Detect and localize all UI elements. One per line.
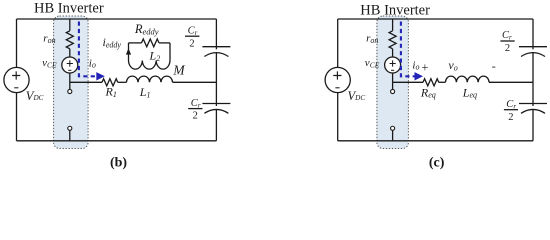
resistor r_on (b): [66, 31, 73, 49]
capacitor Cr/2 top curved plate (c): [521, 53, 545, 57]
wire capacitor leg top (c): [532, 19, 534, 49]
svg-text:M: M: [172, 63, 185, 78]
inductor L1 (b): [127, 76, 173, 82]
svg-text:HB Inverter: HB Inverter: [34, 1, 104, 17]
resistor r_on (c): [389, 31, 396, 49]
wire bottom rail (b): [17, 140, 217, 142]
switch contact lower (b): [68, 126, 72, 130]
svg-text:HB Inverter: HB Inverter: [360, 2, 430, 18]
wire node to contact (c): [392, 82, 394, 89]
wire between capacitors (b): [215, 53, 217, 106]
svg-text:(c): (c): [429, 155, 445, 170]
capacitor Cr/2 bottom plate (b): [202, 103, 230, 105]
capacitor Cr/2 top plate (b): [202, 46, 230, 48]
capacitor Cr/2 bottom curved plate (c): [521, 109, 545, 113]
resistor R_eddy (b): [142, 39, 160, 47]
svg-text:2: 2: [505, 43, 510, 54]
capacitor Cr/2 top plate (c): [519, 46, 547, 48]
resistor Req (c): [423, 79, 439, 86]
wire left rail upper (b): [16, 19, 18, 68]
wire capacitor leg top (b): [215, 19, 217, 49]
current io arrowhead (c): [415, 72, 424, 80]
wire vCE to node (b): [69, 73, 71, 82]
wire Leq to capacitor node (c): [489, 81, 533, 83]
switch contact lower (c): [391, 126, 395, 130]
inductor L2 (b): [129, 61, 170, 70]
source vCE (b): [62, 57, 78, 73]
HB inverter dashed box (b): [54, 16, 89, 149]
switch contact upper (b): [68, 89, 72, 93]
capacitor Cr/2 bottom curved plate (b): [204, 109, 228, 113]
wire node to Req (c): [393, 81, 423, 83]
wire capacitor leg bottom (b): [215, 110, 217, 141]
current i_eddy arrowhead (b): [126, 48, 131, 54]
eddy loop left edge (b): [128, 43, 130, 61]
HB inverter dashed box (c): [377, 16, 409, 149]
svg-text:(b): (b): [110, 155, 127, 170]
wire r_on to vCE (b): [69, 49, 71, 57]
label Cr/2 top (b): [185, 26, 199, 50]
wire L1 to capacitor node (b): [173, 81, 217, 83]
wire node to contact (b): [69, 82, 71, 89]
wire R1 to L1 (b): [118, 81, 127, 83]
wire vCE to node (c): [392, 73, 394, 82]
wire switch-leg top lead (c): [392, 19, 394, 31]
switch contact upper (c): [391, 89, 395, 93]
capacitor Cr/2 bottom plate (c): [519, 103, 547, 105]
voltage source VDC (b): [4, 67, 29, 92]
wire r_on to vCE (c): [392, 49, 394, 57]
svg-text:2: 2: [193, 111, 198, 122]
wire switch-leg top lead (b): [69, 19, 71, 31]
label Cr/2 bottom (c): [504, 99, 518, 123]
wire top rail (b): [17, 18, 217, 20]
wire node to R1 (b): [70, 81, 102, 83]
current io dashed path (c): [401, 22, 415, 77]
svg-text:2: 2: [508, 112, 513, 123]
wire contact to bottom rail (c): [392, 131, 394, 141]
wire left rail lower (c): [337, 92, 339, 140]
voltage source VDC (c): [325, 67, 350, 92]
svg-text:+: +: [421, 61, 428, 75]
label Cr/2 bottom (b): [188, 98, 202, 122]
current io dashed path (b): [79, 22, 97, 77]
eddy loop top-right wire (b): [159, 42, 170, 44]
svg-text:-: -: [492, 59, 496, 73]
wire bottom rail (c): [338, 140, 533, 142]
eddy loop right edge (b): [169, 43, 171, 61]
label Cr/2 top (c): [500, 30, 514, 54]
resistor R1 (b): [102, 79, 118, 86]
wire top rail (c): [338, 18, 533, 20]
wire left rail lower (b): [16, 92, 18, 140]
wire capacitor leg bottom (c): [532, 110, 534, 141]
source vCE (c): [385, 57, 401, 73]
wire between capacitors (c): [532, 53, 534, 106]
wire left rail upper (c): [337, 19, 339, 68]
inductor Leq (c): [446, 76, 490, 82]
eddy loop top-left wire (b): [129, 42, 142, 44]
wire contact to bottom rail (b): [69, 131, 71, 141]
current io arrowhead (b): [96, 72, 105, 80]
capacitor Cr/2 top curved plate (b): [204, 53, 228, 57]
svg-text:2: 2: [189, 38, 194, 49]
wire Req to Leq (c): [439, 81, 446, 83]
